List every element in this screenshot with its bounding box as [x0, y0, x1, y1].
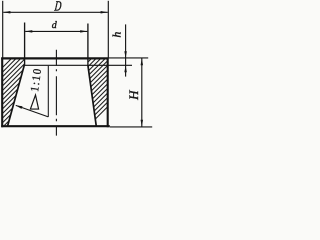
cavity mouth line (cone start) [24, 64, 132, 66]
H dimension line [141, 58, 143, 127]
cavity right cone edge [88, 65, 96, 125]
arrowhead right of dimension d [80, 30, 87, 33]
taper flag leader line [16, 105, 49, 117]
arrowhead upper of dimension h [124, 51, 127, 58]
bottom extension to right [110, 126, 152, 128]
extension + dimension thin lines [3, 1, 153, 127]
h dimension line [125, 24, 127, 76]
svg-text:h: h [111, 31, 123, 37]
right outer edge [107, 58, 109, 128]
bottom surface thick [1, 125, 110, 127]
arrowhead left of dimension D [3, 11, 10, 14]
svg-text:H: H [126, 90, 141, 101]
extension line D left [2, 1, 4, 58]
center line (axis, dash-dot) [55, 50, 57, 136]
arrowhead upper of dimension H [141, 58, 144, 65]
leader arrowhead of taper flag [15, 105, 22, 109]
arrowhead lower of dimension H [141, 120, 144, 127]
hatching left wall [0, 50, 98, 130]
extension line d left / bore mouth left edge [24, 23, 26, 66]
left outer edge [1, 58, 3, 128]
d dimension line [25, 30, 87, 32]
taper triangle symbol (cone sign) [30, 95, 38, 109]
D dimension line [3, 11, 107, 13]
extension line D right [107, 1, 109, 58]
cavity left cone edge [8, 65, 25, 125]
flag vertical [47, 66, 49, 117]
arrowhead left of dimension d [25, 30, 32, 33]
arrowhead lower of dimension h [124, 65, 127, 72]
top surface thick [1, 57, 108, 59]
arrowhead right of dimension D [101, 11, 108, 14]
hatching right wall [20, 50, 164, 130]
extension line d right / bore mouth right edge [87, 24, 89, 66]
top surface extension to right [109, 57, 149, 59]
part outline [1, 58, 132, 128]
